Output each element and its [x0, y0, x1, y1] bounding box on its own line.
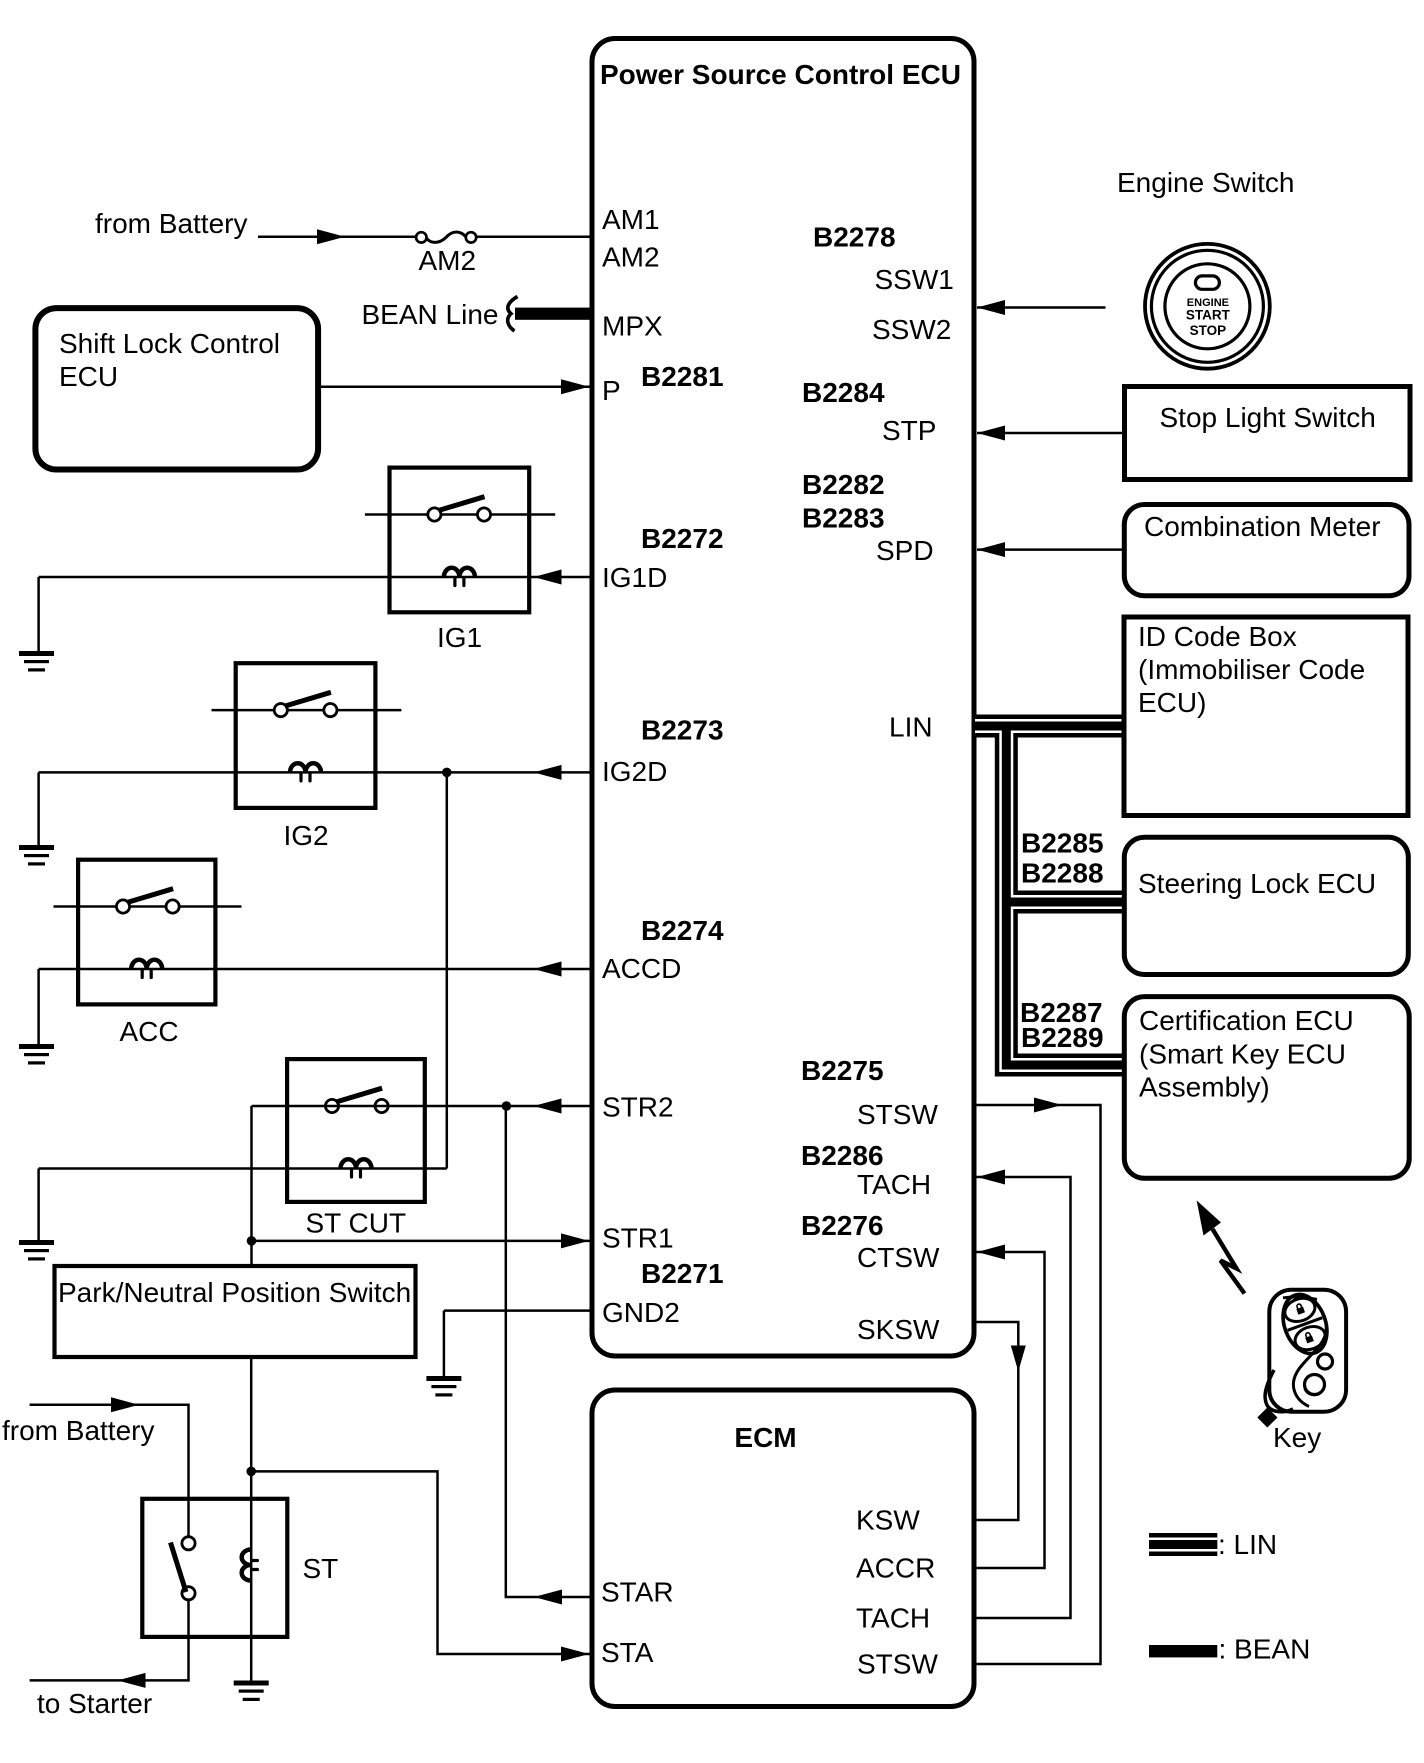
pin ACCR of ECM [856, 1553, 935, 1584]
wireless lightning arrow from Key to Certification ECU [1197, 1200, 1245, 1293]
svg-text:Power Source Control ECU: Power Source Control ECU [600, 59, 961, 90]
relay ST [142, 1499, 338, 1637]
code B2275 [801, 1055, 884, 1086]
svg-text:to Starter: to Starter [37, 1688, 152, 1719]
svg-text:B2288: B2288 [1021, 858, 1104, 889]
svg-text:B2284: B2284 [802, 377, 885, 408]
svg-text:B2272: B2272 [641, 523, 724, 554]
wire STSW to ECM STSW [976, 1098, 1101, 1665]
svg-text:Steering Lock ECU: Steering Lock ECU [1138, 868, 1376, 899]
wire from Battery to ST relay [2, 1397, 189, 1536]
wire P from Shift Lock Control ECU [318, 379, 592, 394]
Engine Switch label [1117, 167, 1294, 198]
wire IG2D with coil of IG2 [39, 763, 592, 846]
svg-text:ACCD: ACCD [602, 953, 681, 984]
svg-text:B2276: B2276 [801, 1210, 884, 1241]
ID Code Box (Immobiliser Code ECU) [1124, 617, 1408, 816]
svg-text:STR1: STR1 [602, 1223, 674, 1254]
ground G4 [19, 1240, 54, 1261]
svg-text:AM2: AM2 [419, 245, 477, 276]
svg-text:STOP: STOP [1190, 323, 1227, 338]
LIN bus to ID Code Box, Steering Lock ECU and Certification ECU [975, 726, 1125, 1065]
code B2285 [1021, 828, 1104, 859]
wire STAR riser to STR2 junction [506, 1106, 593, 1605]
svg-text:from Battery: from Battery [2, 1415, 154, 1446]
svg-text:SKSW: SKSW [857, 1314, 940, 1345]
svg-text:ECU): ECU) [1138, 687, 1206, 718]
svg-text:from Battery: from Battery [95, 208, 247, 239]
svg-text:B2289: B2289 [1021, 1022, 1104, 1053]
code B2288 [1021, 858, 1104, 889]
pin SSW1 [875, 264, 954, 295]
pin ACCD [602, 953, 681, 984]
pin STSW [857, 1099, 938, 1130]
svg-text:BEAN Line: BEAN Line [362, 299, 499, 330]
code B2283 [802, 503, 885, 534]
code B2274 [641, 915, 724, 946]
pin SKSW [857, 1314, 940, 1345]
fuse AM2 [416, 232, 476, 276]
code B2278 [813, 222, 896, 253]
wire engine switch to SSW [977, 300, 1106, 315]
wire Park/Neutral switch to ST coil [250, 1357, 253, 1681]
wire ECM ACCR to CTSW [976, 1245, 1045, 1569]
svg-text:ECM: ECM [734, 1422, 796, 1453]
pin STR2 [602, 1091, 674, 1122]
svg-text:STR2: STR2 [602, 1091, 674, 1122]
wire to Starter [30, 1600, 189, 1719]
svg-text:Certification ECU: Certification ECU [1139, 1005, 1354, 1036]
code B2286 [801, 1140, 884, 1171]
pin STSW of ECM [857, 1649, 938, 1680]
svg-text:STA: STA [601, 1637, 654, 1668]
wire ECM TACH to TACH [976, 1170, 1071, 1619]
code B2284 [802, 377, 885, 408]
svg-text:ACCR: ACCR [856, 1553, 935, 1584]
ground G6 under ST coil [234, 1681, 269, 1702]
svg-text:KSW: KSW [856, 1505, 920, 1536]
svg-text:CTSW: CTSW [857, 1242, 940, 1273]
svg-text:STSW: STSW [857, 1649, 938, 1680]
svg-text:SSW2: SSW2 [872, 314, 951, 345]
pin STR1 [602, 1223, 674, 1254]
legend BEAN line symbol [1149, 1634, 1310, 1665]
relay IG1 [365, 468, 555, 653]
ground G2 [19, 845, 54, 866]
svg-text:Combination Meter: Combination Meter [1144, 511, 1381, 542]
svg-text:IG1D: IG1D [602, 562, 667, 593]
wire STR1 [247, 1233, 592, 1266]
svg-text:B2281: B2281 [641, 361, 724, 392]
pin AM2 [602, 242, 660, 273]
code B2287 [1020, 997, 1103, 1028]
svg-text:B2271: B2271 [641, 1258, 724, 1289]
svg-text:(Smart Key ECU: (Smart Key ECU [1139, 1039, 1346, 1070]
pin IG2D [602, 756, 667, 787]
wire coil of ST CUT [39, 1159, 447, 1241]
svg-text:B2278: B2278 [813, 222, 896, 253]
svg-text:IG2D: IG2D [602, 756, 667, 787]
pin TACH [857, 1169, 931, 1200]
pin STAR [601, 1577, 674, 1608]
svg-text:ECU: ECU [59, 361, 118, 392]
pin MPX [602, 311, 663, 342]
node junction STA branch [246, 1467, 592, 1662]
svg-text:IG2: IG2 [284, 820, 329, 851]
Stop Light Switch box [1125, 387, 1411, 480]
pin CTSW [857, 1242, 940, 1273]
pin KSW of ECM [856, 1505, 920, 1536]
svg-text:P: P [602, 375, 621, 406]
svg-text:B2273: B2273 [641, 715, 724, 746]
pin SSW2 [872, 314, 951, 345]
ground G3 [19, 1044, 54, 1065]
svg-text:B2285: B2285 [1021, 828, 1104, 859]
svg-text:B2282: B2282 [802, 469, 885, 500]
svg-text:SSW1: SSW1 [875, 264, 954, 295]
svg-text:ST: ST [303, 1553, 339, 1584]
svg-text:STP: STP [882, 415, 936, 446]
code B2271 [641, 1258, 724, 1289]
svg-text:ACC: ACC [120, 1016, 179, 1047]
BEAN line into MPX [362, 297, 593, 332]
relay IG2 [212, 663, 402, 851]
svg-text:Assembly): Assembly) [1139, 1072, 1270, 1103]
svg-text:AM1: AM1 [602, 204, 660, 235]
svg-text:STAR: STAR [601, 1577, 674, 1608]
Power Source Control ECU box U1 [592, 39, 974, 1357]
svg-text:TACH: TACH [856, 1603, 930, 1634]
Shift Lock Control ECU box [35, 308, 318, 469]
key fob icon [1257, 1288, 1346, 1453]
pin STA [601, 1637, 654, 1668]
engine start/stop button SW1 [1145, 244, 1270, 369]
pin STP [882, 415, 936, 446]
svg-text:START: START [1186, 308, 1231, 323]
wire STR2 through ST CUT contact [252, 1099, 593, 1241]
wire SKSW to ECM KSW [976, 1322, 1026, 1520]
svg-text:ST CUT: ST CUT [306, 1208, 407, 1239]
pin AM1 [602, 204, 660, 235]
pin SPD [876, 535, 934, 566]
svg-text:IG1: IG1 [437, 622, 482, 653]
svg-text:ID Code Box: ID Code Box [1138, 621, 1297, 652]
code B2272 [641, 523, 724, 554]
svg-text:LIN: LIN [889, 712, 933, 743]
svg-text:: BEAN: : BEAN [1219, 1634, 1311, 1665]
wire GND2 to ground [444, 1311, 592, 1377]
ground G5 [426, 1376, 461, 1397]
pin GND2 [602, 1297, 680, 1328]
relay ACC [54, 860, 242, 1047]
svg-text:(Immobiliser Code: (Immobiliser Code [1138, 654, 1365, 685]
pin P [602, 375, 621, 406]
ground G1 [19, 651, 54, 672]
svg-text:B2283: B2283 [802, 503, 885, 534]
code B2282 [802, 469, 885, 500]
wire from Battery to AM1 [95, 208, 592, 244]
wire combination meter to SPD [977, 542, 1122, 557]
Steering Lock ECU box [1124, 837, 1408, 974]
svg-text:Shift Lock Control: Shift Lock Control [59, 328, 280, 359]
svg-text:TACH: TACH [857, 1169, 931, 1200]
svg-text:SPD: SPD [876, 535, 934, 566]
code B2273 [641, 715, 724, 746]
code B2276 [801, 1210, 884, 1241]
ECM box U2 [592, 1390, 974, 1707]
svg-text:B2274: B2274 [641, 915, 724, 946]
relay ST CUT [287, 1059, 425, 1238]
wire ACCD with coil of ACC [39, 960, 592, 1045]
pin LIN [889, 712, 933, 743]
pin IG1D [602, 562, 667, 593]
svg-text:B2286: B2286 [801, 1140, 884, 1171]
svg-text:AM2: AM2 [602, 242, 660, 273]
wire stop light switch to STP [977, 426, 1122, 441]
svg-text:Park/Neutral Position Switch: Park/Neutral Position Switch [58, 1277, 411, 1308]
svg-text:Stop Light Switch: Stop Light Switch [1160, 402, 1376, 433]
node junction IG2D / ST CUT riser [442, 768, 452, 1169]
wire IG1D with coil of IG1 [39, 568, 592, 652]
svg-text:B2275: B2275 [801, 1055, 884, 1086]
svg-text:Engine Switch: Engine Switch [1117, 167, 1294, 198]
Combination Meter box [1124, 505, 1409, 596]
code B2289 [1021, 1022, 1104, 1053]
svg-text:: LIN: : LIN [1218, 1529, 1277, 1560]
legend LIN line symbol [1149, 1529, 1277, 1560]
svg-text:STSW: STSW [857, 1099, 938, 1130]
svg-text:GND2: GND2 [602, 1297, 680, 1328]
svg-text:Key: Key [1273, 1422, 1321, 1453]
pin TACH of ECM [856, 1603, 930, 1634]
svg-text:MPX: MPX [602, 311, 663, 342]
code B2281 [641, 361, 724, 392]
Certification ECU (Smart Key ECU Assembly) box [1124, 997, 1409, 1179]
Park/Neutral Position Switch box [55, 1266, 416, 1357]
